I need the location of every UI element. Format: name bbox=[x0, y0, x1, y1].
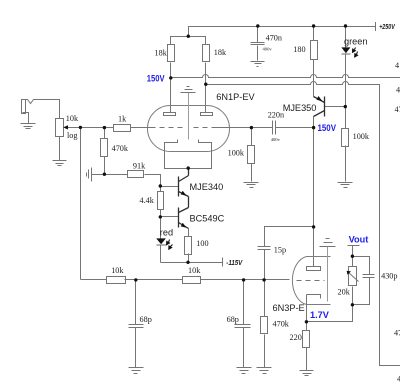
svg-text:10k: 10k bbox=[66, 114, 79, 123]
svg-text:10k: 10k bbox=[188, 266, 201, 275]
svg-text:20k: 20k bbox=[338, 287, 351, 296]
svg-text:18k: 18k bbox=[155, 49, 168, 58]
svg-text:+250V: +250V bbox=[379, 24, 396, 31]
svg-text:4.4k: 4.4k bbox=[140, 196, 155, 205]
svg-text:MJE340: MJE340 bbox=[190, 182, 224, 192]
svg-text:1k: 1k bbox=[118, 114, 127, 123]
svg-text:6N1P-EV: 6N1P-EV bbox=[216, 92, 255, 102]
svg-text:470k: 470k bbox=[112, 144, 129, 153]
svg-text:4: 4 bbox=[396, 85, 400, 94]
svg-text:220n: 220n bbox=[268, 110, 284, 119]
svg-text:150V: 150V bbox=[318, 123, 337, 133]
svg-text:1.7V: 1.7V bbox=[310, 310, 330, 320]
svg-text:180: 180 bbox=[293, 45, 305, 54]
svg-text:MJE350: MJE350 bbox=[283, 103, 317, 113]
svg-text:4: 4 bbox=[395, 61, 399, 70]
svg-text:100k: 100k bbox=[228, 148, 245, 157]
svg-text:150V: 150V bbox=[147, 73, 166, 83]
svg-text:470k: 470k bbox=[273, 320, 290, 329]
svg-text:100k: 100k bbox=[353, 132, 370, 141]
svg-text:BC549C: BC549C bbox=[190, 214, 225, 224]
svg-text:400v: 400v bbox=[271, 137, 281, 142]
svg-text:15p: 15p bbox=[274, 245, 286, 254]
svg-text:10k: 10k bbox=[111, 266, 124, 275]
svg-text:100: 100 bbox=[196, 239, 208, 248]
svg-text:47: 47 bbox=[395, 105, 400, 114]
svg-text:470n: 470n bbox=[266, 34, 282, 43]
svg-text:-115V: -115V bbox=[226, 260, 243, 267]
svg-text:430p: 430p bbox=[381, 272, 397, 281]
svg-text:18k: 18k bbox=[214, 48, 227, 57]
svg-text:6N3P-E: 6N3P-E bbox=[273, 303, 305, 313]
svg-text:91k: 91k bbox=[133, 161, 146, 170]
svg-text:47: 47 bbox=[394, 329, 400, 338]
svg-text:68p: 68p bbox=[140, 315, 152, 324]
svg-text:400v: 400v bbox=[263, 47, 273, 52]
svg-text:red: red bbox=[160, 228, 173, 238]
svg-text:68p: 68p bbox=[227, 315, 239, 324]
svg-text:220: 220 bbox=[290, 333, 302, 342]
svg-text:log: log bbox=[67, 131, 77, 140]
svg-text:green: green bbox=[344, 37, 368, 47]
svg-text:Vout: Vout bbox=[349, 234, 369, 244]
